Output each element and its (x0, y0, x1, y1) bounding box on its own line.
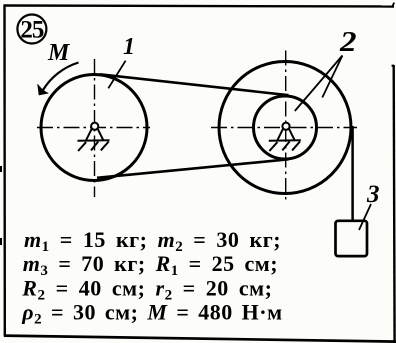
label 2 pointer line to outer pulley (322, 56, 342, 98)
pulley 2 inner circle (254, 96, 317, 159)
pulley 2 vertical centerline (285, 51, 287, 203)
pulley 1 vertical centerline (94, 59, 96, 197)
scan speck on left edge lower (0, 238, 2, 245)
torque arc arrow (43, 63, 79, 91)
frame left border (3, 5, 6, 337)
right border start tick (392, 65, 394, 67)
pulley 2 horizontal centerline (211, 127, 357, 129)
problem number circle 25 (17, 15, 46, 44)
lower belt (97, 159, 289, 178)
frame right border (393, 65, 396, 343)
label 2 pointer line to inner pulley (295, 56, 343, 112)
label 1 pointer line (108, 61, 125, 89)
pulley 1 circle (41, 75, 147, 181)
frame bottom border (4, 336, 396, 342)
svg-text:3: 3 (366, 181, 380, 208)
pulley 1 horizontal centerline (37, 127, 150, 129)
pulley 2 outer circle (219, 62, 351, 194)
pivot support of pulley 1 (78, 123, 110, 151)
rope to mass 3 (351, 126, 354, 221)
top border end tick (393, 3, 395, 6)
upper belt (100, 74, 289, 95)
scan speck on left edge (0, 166, 2, 172)
frame top border (4, 6, 395, 7)
svg-text:ρ2 = 30 см; M = 480 Н·м: ρ2 = 30 см; M = 480 Н·м (21, 300, 282, 328)
svg-text:25: 25 (20, 17, 44, 44)
label 3 pointer line (359, 204, 371, 230)
svg-text:1: 1 (123, 34, 135, 60)
svg-text:M: M (47, 40, 71, 66)
pivot support of pulley 2 (269, 123, 301, 151)
svg-text:2: 2 (339, 27, 357, 58)
mass 3 box (336, 221, 368, 256)
